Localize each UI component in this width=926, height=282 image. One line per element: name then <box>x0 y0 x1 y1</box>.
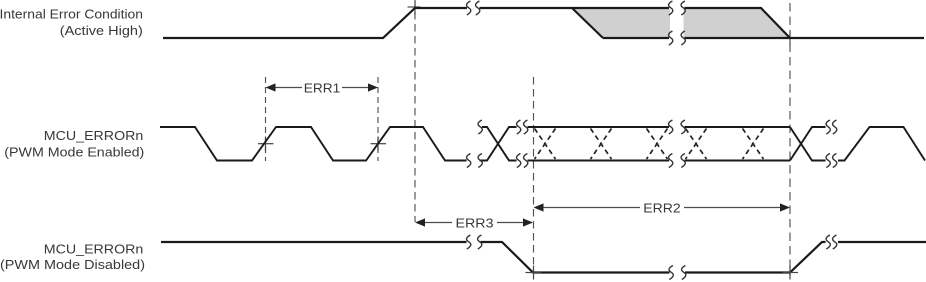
tick at error-assert corner x=415 y=8 <box>408 1 421 15</box>
label: MCU_ERRORn (PWM Mode Disabled) <box>0 241 145 272</box>
dashed timing line at x=265.5 (ERR1 start) <box>265 77 267 161</box>
label: Internal Error Condition (Active High) <box>0 7 143 39</box>
wire: bus low rail left of break <box>528 160 670 162</box>
svg-text:(PWM Mode Disabled): (PWM Mode Disabled) <box>0 257 145 272</box>
wire: bus high rail left of break <box>528 126 670 128</box>
wire: MCU_ERRORn PWM pulse train <box>160 127 925 161</box>
svg-text:ERR1: ERR1 <box>304 80 341 95</box>
wire: top edge right of break, falling edge, low tail <box>685 8 925 38</box>
wire: high segment, falling edge, low segment <box>481 242 670 273</box>
dashed dont-care X crosses in bus region <box>535 129 764 160</box>
wire: left slope of shaded region <box>572 8 603 38</box>
tick at rising edge corner x=790 <box>783 266 799 280</box>
dashed timing line at x=415 (error assertion) <box>414 0 416 222</box>
label: MCU_ERRORn (PWM Mode Enabled) <box>4 128 144 159</box>
break marks on shaded region top edge <box>669 1 686 15</box>
break marks on PWM low line before X crossing <box>467 154 483 168</box>
break marks on bus low rail <box>669 154 686 168</box>
shaded dont-care region fill left of break <box>573 9 670 37</box>
break marks on bus high rail <box>669 120 686 134</box>
tick on PWM rising edge at x=265.5 <box>258 137 274 152</box>
svg-text:(Active High): (Active High) <box>60 23 143 38</box>
wire: high tail to right edge <box>838 241 926 243</box>
svg-text:(PWM Mode Enabled): (PWM Mode Enabled) <box>4 144 144 159</box>
wire: bus high rail right of break <box>685 126 791 128</box>
wire: high segment after break, top edge of shaded region <box>480 7 670 9</box>
break mark starting PWM high stub <box>478 120 482 134</box>
wire: low segment, rising edge, high stub <box>685 242 826 273</box>
wire: MCU_ERRORn PWM Mode Disabled high segment <box>161 242 926 273</box>
break marks on shaded region bottom edge <box>669 31 686 45</box>
svg-text:ERR3: ERR3 <box>456 215 494 230</box>
wire: falling diagonal of right X crossing <box>790 127 826 161</box>
break marks after X crossing low <box>517 154 528 168</box>
wire: Internal Error Condition low segment and rising edge <box>163 8 924 38</box>
tick on PWM rising edge at x=378 <box>371 137 387 152</box>
tick at error-release corner x=790 y=38 <box>789 32 791 46</box>
dashed timing line at x=533.5 (PWM response) <box>533 77 535 270</box>
break marks on Internal Error Condition high line <box>467 1 480 15</box>
dimension arrow ERR3 <box>415 215 533 230</box>
dashed timing line at x=790 (error release) <box>789 3 791 276</box>
wire: bus low rail right of break <box>685 160 791 162</box>
wire: rising diagonal of right X crossing <box>790 127 826 161</box>
wire: bottom edge of shaded region right of break <box>685 37 791 39</box>
svg-text:MCU_ERRORn: MCU_ERRORn <box>44 241 144 256</box>
svg-text:ERR2: ERR2 <box>643 201 681 216</box>
wire: resumed PWM pulse at right <box>838 127 925 161</box>
break marks on disabled-mode high line right <box>826 235 837 249</box>
wire: high stub falling through X crossing <box>482 127 517 161</box>
dimension arrow ERR2 <box>534 201 791 216</box>
wire: low stub rising through X crossing <box>480 127 517 161</box>
shaded dont-care region fill right of break <box>684 9 788 37</box>
svg-text:MCU_ERRORn: MCU_ERRORn <box>44 128 144 143</box>
break marks ending PWM high stub right <box>826 120 837 134</box>
tick at falling edge corner x=533 <box>526 266 542 280</box>
break marks after X crossing high <box>517 120 528 134</box>
svg-text:Internal Error Condition: Internal Error Condition <box>0 7 143 22</box>
dashed timing line at x=378 (ERR1 end) <box>377 77 379 161</box>
wire: bottom edge of shaded region left of break <box>603 37 669 39</box>
dimension arrow ERR1 <box>266 80 379 95</box>
break marks on disabled-mode low line <box>669 266 686 280</box>
break marks on PWM low stub right <box>826 154 837 168</box>
break marks on disabled-mode high line left <box>467 235 482 249</box>
